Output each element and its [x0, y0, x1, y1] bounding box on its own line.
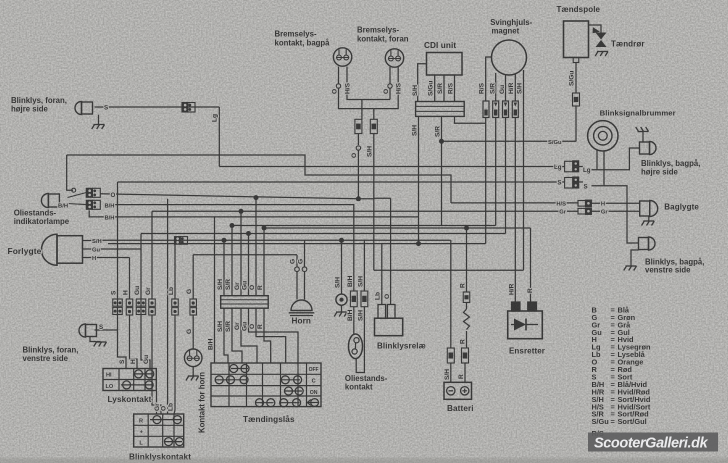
ground horn switch	[186, 376, 199, 381]
connector oil B/H	[350, 291, 357, 307]
wire relay Lb drop	[381, 244, 383, 305]
wire brake S/H below connector	[373, 134, 375, 271]
wire multipin Gr up	[240, 211, 242, 295]
wire Gu drop x141	[140, 234, 142, 300]
lamp Baglygte tail light	[650, 201, 658, 217]
wire horn switch to ground	[192, 367, 194, 376]
wire ignition feed S/R	[232, 308, 242, 363]
wire Baglygte Gr	[592, 210, 640, 212]
wire Lb drop x175	[174, 244, 176, 299]
wire O drop x167.6	[167, 199, 169, 414]
connector H column	[126, 299, 133, 315]
connector magnet S/R	[493, 101, 499, 118]
connector S right	[565, 177, 579, 188]
wire relay O drop	[390, 198, 392, 304]
lamp rear-right blinker	[650, 142, 657, 155]
wire CDI S/R	[443, 75, 445, 102]
connector brake O	[355, 119, 362, 133]
connector coil S/Gu	[573, 93, 580, 106]
terminal Ensretter H/R	[512, 302, 521, 311]
wire magnet Gu	[505, 75, 507, 102]
wire S connector to rear-left blinker	[579, 181, 583, 183]
wire brake O joined drop	[361, 100, 363, 120]
wire brake front O lead	[389, 67, 391, 84]
connector oil lamp lower	[86, 200, 100, 209]
wire rear-right blinker ground lead	[642, 132, 644, 142]
box Ensretter rectifier	[508, 311, 543, 339]
wire magnet H/R	[514, 74, 516, 102]
wire CDI S/Gu	[434, 75, 436, 102]
wire: S from front-right blinker to connector and Lg drop	[95, 106, 220, 108]
bottom scan shadow	[0, 458, 728, 463]
spark arrow	[591, 26, 600, 33]
ground oil S/H	[334, 312, 347, 317]
wire bus S/Gu y141.3	[442, 140, 577, 142]
wire front-right blinker ground lead	[98, 115, 100, 124]
oil level switch oval	[349, 334, 363, 359]
wire bus O y198.8	[100, 194, 390, 199]
lamp front-right blinker	[75, 102, 82, 115]
ground rear-left blinker	[624, 266, 637, 271]
wire bus B/H2 y216.9	[89, 210, 418, 217]
wire bus A y155 from left riser	[67, 155, 451, 203]
wire bus S/H y240.3	[98, 239, 451, 241]
lamp rear-left blinker	[649, 237, 656, 250]
wire Lyskontakt to Blinklyskontakt	[156, 391, 158, 415]
wire bus S y182	[118, 181, 565, 183]
terminal relay Lb	[378, 305, 386, 319]
wire bus H/S to Baglygte	[451, 202, 578, 204]
wire brummer right lead	[603, 151, 605, 186]
connector magnet R/S	[483, 101, 489, 118]
connector oil lamp upper	[86, 188, 100, 197]
wire multipin S/H up	[223, 240, 225, 295]
wire multipin Gu up	[248, 234, 250, 296]
connector round oil S/H	[336, 294, 347, 305]
terminal relay O	[387, 305, 395, 319]
wire multipin S/R up	[231, 226, 233, 296]
ground spark plug	[595, 52, 608, 57]
wire front-left blinker S	[95, 329, 118, 331]
wire brake rear H/S lead	[347, 67, 390, 100]
wire ignition feed R	[264, 308, 271, 363]
terminal circle O left	[72, 188, 76, 192]
wire Baglygte ground lead	[648, 217, 650, 221]
wire bus Gr y211.3	[152, 210, 578, 212]
wire coil bottom S/Gu	[573, 58, 579, 63]
wire G drop x193 to horn switch	[192, 255, 194, 299]
wire S/H oil switch loop	[363, 240, 365, 291]
wire bus R/S y243.6	[108, 243, 486, 245]
wire front-left blinker ground lead	[90, 337, 101, 342]
wire H drop x129.5	[129, 258, 131, 300]
wire S drop x117.5	[117, 182, 119, 299]
wire bus Gu y233.5	[141, 233, 506, 235]
wire brake S/H joined drop	[373, 109, 375, 120]
terminal circle brake O below	[356, 146, 360, 150]
node junction S/H sensor	[339, 238, 344, 243]
oil lamp leads	[68, 193, 87, 198]
switch brake rear	[333, 48, 351, 66]
ground Baglygte	[642, 221, 655, 226]
wire horn leads to bell	[296, 272, 298, 300]
box Blinklysrelae flasher relay	[375, 318, 403, 336]
terminal circle horn right	[302, 267, 307, 272]
lamp front-left blinker	[79, 324, 86, 337]
switch table Taendingslaas ignition	[211, 363, 321, 407]
node junction R battery drop	[464, 226, 469, 231]
connector oil S/H2	[361, 291, 368, 307]
connector magnet H/R	[512, 101, 518, 118]
ground front-right blinker	[92, 125, 105, 130]
wire B/H oil switch drop	[353, 307, 355, 335]
wire CDI S/H side	[418, 64, 427, 102]
lamp Forlygte headlight	[41, 234, 57, 265]
svg-text:ScooterGalleri.dk: ScooterGalleri.dk	[594, 436, 709, 452]
ignition lock symbol	[311, 399, 319, 407]
connector magnet Gu	[503, 101, 509, 118]
diode symbol Ensretter	[514, 319, 526, 331]
wire Lg connector to rear-right blinker	[579, 166, 583, 168]
wire bus R y228	[264, 227, 531, 229]
watermark bar ScooterGalleri.dk	[588, 433, 718, 452]
connector S pair top-left	[182, 103, 195, 113]
box CDI unit	[427, 53, 463, 76]
wire coil to spark plug	[589, 25, 602, 33]
wire magnet R/S	[486, 57, 492, 101]
ground rear-right blinker	[636, 127, 649, 132]
connector G column	[190, 299, 197, 315]
lamp oil indicator	[41, 194, 48, 208]
wire brake rear O lead	[338, 67, 340, 84]
wire Forlygte H	[83, 257, 130, 259]
wire rear-left blinker ground lead	[631, 250, 639, 266]
connector battery R upper	[463, 292, 470, 303]
wire S/H sensor drop x341.5	[341, 240, 343, 294]
wire horn right lead	[304, 240, 306, 266]
node junction S/Gu tap	[439, 139, 444, 144]
node junction O bus	[356, 196, 361, 201]
wire ignition feed Gr	[241, 308, 257, 363]
node Lg drop corner	[218, 107, 220, 167]
connector Lg right	[565, 161, 579, 172]
circle flywheel magnet	[492, 40, 527, 75]
buzzer Blinksignalbrummer	[588, 121, 618, 151]
horn bell	[291, 300, 312, 311]
switch table Lyskontakt	[103, 369, 156, 391]
wire CDI R/S	[454, 75, 456, 102]
connector inline S/H bus	[175, 237, 188, 245]
terminal circle brake front O	[388, 84, 392, 88]
wire brummer left lead	[596, 151, 598, 170]
wire bus Lg y166.5	[219, 166, 564, 168]
fuse zigzag R	[466, 303, 468, 310]
node junction CDI S/H drop	[416, 241, 421, 246]
connector battery S/H	[447, 348, 454, 363]
terminal circle horn left	[295, 267, 300, 272]
box ignition coil Taendspole	[564, 21, 589, 58]
wire Forlygte S/H	[83, 240, 99, 242]
wire S/H sensor to ground	[341, 306, 343, 312]
wire multipin R up	[263, 228, 265, 296]
connector H right	[578, 200, 591, 206]
wire battery R with fuse	[466, 228, 468, 292]
connector Gr column	[149, 299, 156, 315]
wire multipin O up	[255, 198, 257, 296]
wire Ensretter R lead	[530, 228, 532, 302]
connector CDI block	[416, 102, 465, 117]
connector S column	[113, 299, 123, 315]
ignition contacts row2	[215, 379, 247, 381]
wire left riser x66.7 to oil lamp	[67, 155, 73, 190]
ignition contacts row3	[285, 390, 302, 392]
switch horn button	[184, 349, 202, 367]
switch brake front	[385, 49, 403, 67]
wire brake front H/S lead	[374, 67, 398, 109]
wire Baglygte H	[592, 202, 640, 204]
node junction S/H multipin	[222, 238, 227, 243]
ignition contacts row1	[231, 368, 248, 370]
wire ignition feed B/H	[214, 217, 216, 363]
box Batteri	[444, 382, 472, 399]
wire bus B/H y204.6	[107, 205, 354, 291]
wire bus G horn y254.8	[193, 254, 297, 256]
wire ignition feed S/H	[224, 308, 228, 363]
terminal circle brake rear O	[336, 84, 340, 88]
wire magnet S/H	[523, 70, 525, 270]
wire brake O below connector	[357, 134, 359, 145]
terminal Ensretter R	[528, 302, 537, 311]
wire horn left lead	[296, 255, 298, 267]
connector Gr right	[578, 208, 591, 214]
wire CDI S/R below block	[441, 116, 443, 225]
wire ignition feed O	[256, 308, 286, 363]
connector brake S/H	[370, 119, 377, 133]
wire Gr drop x152	[151, 211, 153, 299]
spark gap Taendroer	[596, 33, 607, 48]
ignition contacts row4	[256, 402, 274, 404]
ground front-left blinker	[94, 342, 107, 347]
connector Lb column	[172, 299, 179, 315]
switch table Blinklyskontakt	[134, 414, 184, 447]
wire S/H ground rail y270.3	[374, 269, 524, 271]
wire Forlygte Gu	[83, 248, 142, 250]
wire bus S/R y225.5	[232, 225, 496, 227]
wire magnet S/R	[495, 73, 497, 101]
wire battery S/H	[450, 240, 452, 348]
connector battery R	[462, 348, 469, 363]
connector Gu column	[136, 299, 146, 315]
connector multipin block	[221, 296, 269, 309]
wire ignition feed Gu	[249, 308, 299, 363]
